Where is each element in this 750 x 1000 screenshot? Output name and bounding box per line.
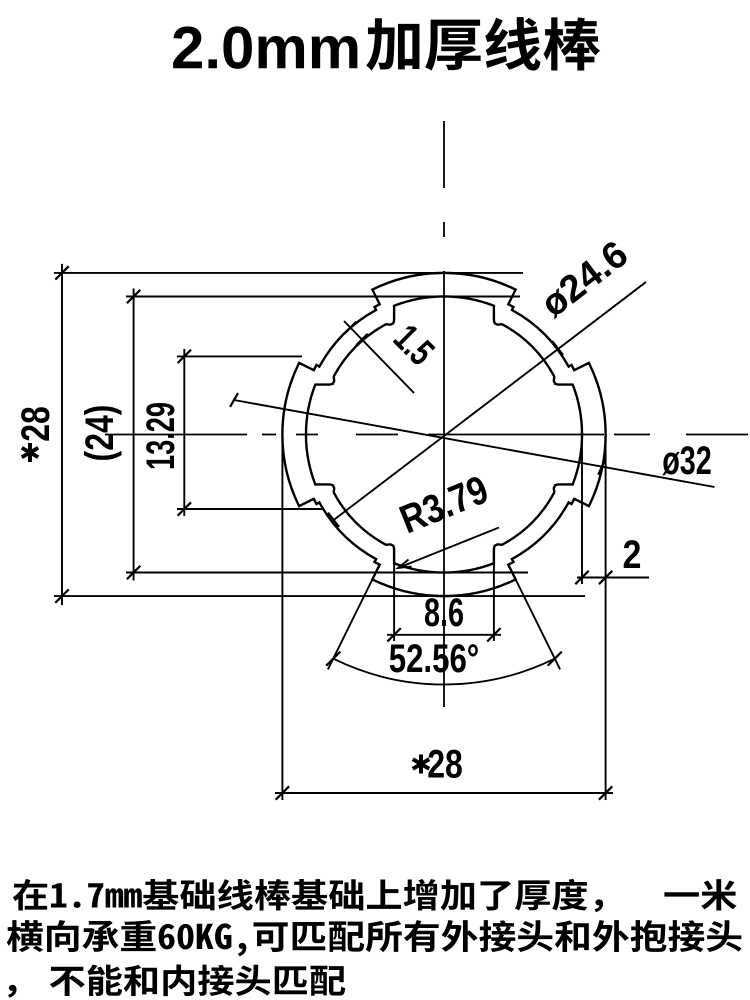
svg-text:ø32: ø32: [662, 438, 712, 483]
dimension 52.56 degrees angle: [328, 569, 378, 669]
dimension *28 bottom: [281, 430, 283, 800]
body text line 3: [8, 985, 17, 998]
svg-text:13.29: 13.29: [139, 402, 183, 470]
dimension R3.79 leader: [398, 528, 499, 569]
svg-text:ø24.6: ø24.6: [533, 233, 636, 325]
dimension dia 24.6 diagonal: [333, 282, 646, 521]
profile inner boundary: [306, 296, 582, 572]
svg-text:28: 28: [427, 741, 463, 786]
dimension dia 32: [234, 400, 715, 487]
horizontal centerline: [105, 434, 247, 436]
dimension 13.29: [183, 349, 185, 516]
svg-text:28: 28: [13, 406, 58, 442]
dimension (24): [133, 289, 135, 581]
vertical centerline: [443, 121, 445, 188]
svg-text:(24): (24): [77, 405, 122, 462]
title 2.0mm thickened pipe: [173, 26, 357, 68]
body text line 1: [13, 879, 737, 912]
dimension *28 left vertical: [61, 264, 63, 605]
svg-text:2: 2: [623, 531, 642, 576]
profile outer boundary: [282, 273, 605, 596]
body text line 2: [7, 920, 742, 956]
svg-text:8.6: 8.6: [424, 590, 464, 635]
dimension 8.6: [393, 552, 395, 641]
svg-text:52.56°: 52.56°: [389, 636, 480, 681]
svg-text:1.5: 1.5: [385, 317, 442, 374]
dimension 1.5 leader: [344, 321, 414, 393]
dimension 2 right: [581, 433, 583, 584]
